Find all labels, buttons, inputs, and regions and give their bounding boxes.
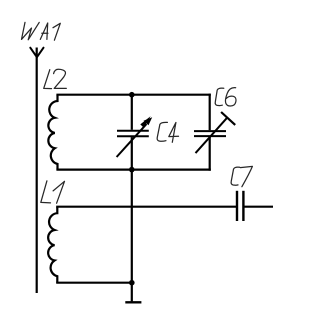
inductor L2 [48,95,57,170]
capacitor C6 plates [194,131,226,136]
node junction ground [129,280,135,286]
wire L1 bottom [56,282,132,284]
wire C6 branch lower (loop right side bottom) [209,137,211,171]
wire to ground [131,283,133,302]
label L1 [41,181,65,203]
inductor L1 [48,207,57,283]
node junction top (C4 tap) [129,92,135,98]
label L2 [44,69,67,88]
capacitor C6 trimmer T-bar [221,112,235,125]
wire L1 top (to C7 left plate) [56,206,236,208]
capacitor C7 plates [237,191,243,221]
wire antenna vertical [36,48,38,294]
capacitor C6 trimmer diagonal [196,117,228,153]
wire C6 branch upper (loop right side top) [209,94,211,131]
capacitor C4 plates [117,131,149,137]
wire C4 branch upper [131,95,133,130]
wire L2 bottom [56,169,210,171]
node junction bottom (C4 tap) [129,167,135,173]
ground [125,301,141,303]
wire C7 right to edge [244,206,273,208]
label C4 [157,122,178,142]
label C7 [231,166,252,186]
antenna WA1 [30,48,43,58]
label WA1 [22,22,61,40]
wire L2 top [56,94,210,96]
label C6 [215,88,236,106]
wire C4 branch lower / center vertical down to ground [131,137,133,283]
capacitor C4 variable arrow [117,116,153,157]
